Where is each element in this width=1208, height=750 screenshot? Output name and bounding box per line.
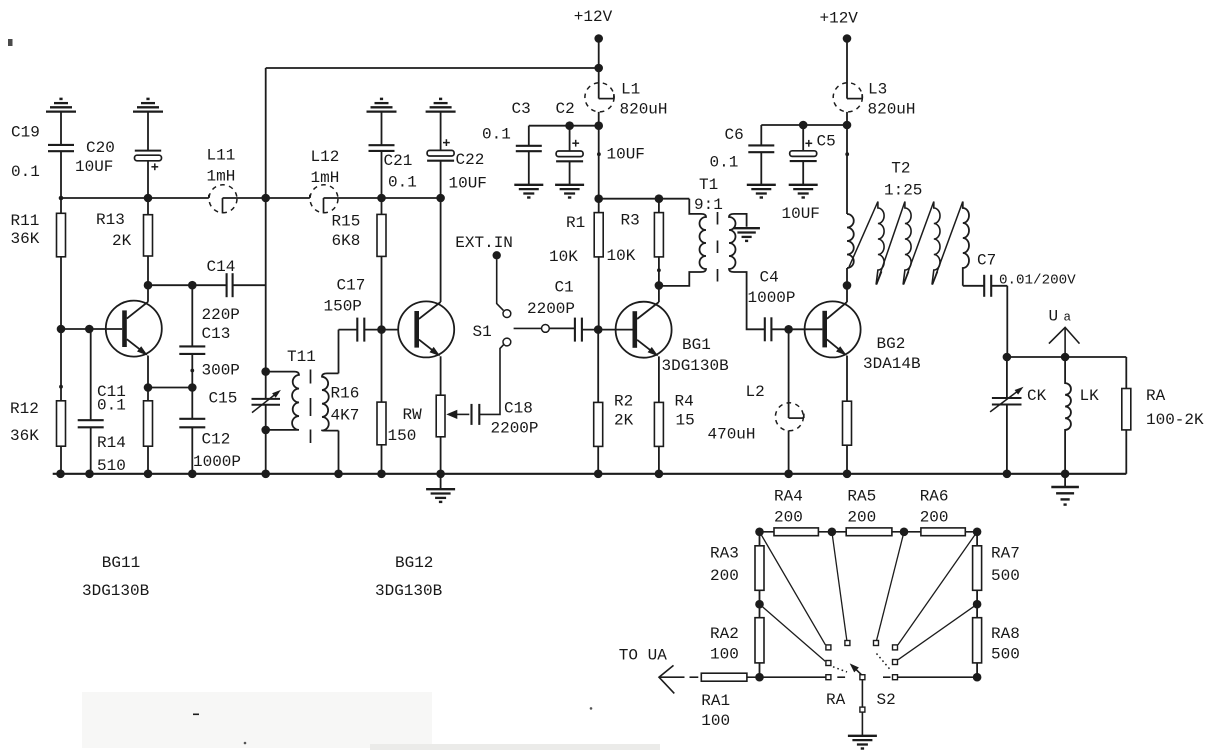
svg-text:C5: C5 bbox=[817, 133, 836, 151]
svg-text:510: 510 bbox=[97, 457, 126, 475]
svg-text:L12: L12 bbox=[311, 148, 340, 166]
svg-text:RA2: RA2 bbox=[710, 625, 739, 643]
svg-text:3DG130B: 3DG130B bbox=[82, 582, 149, 600]
svg-text:470uH: 470uH bbox=[708, 426, 756, 444]
svg-text:C7: C7 bbox=[977, 252, 996, 270]
svg-text:RA4: RA4 bbox=[774, 488, 803, 506]
svg-text:RA7: RA7 bbox=[991, 545, 1020, 563]
svg-text:36K: 36K bbox=[10, 427, 39, 445]
svg-text:220P: 220P bbox=[202, 306, 240, 324]
svg-text:U: U bbox=[1049, 308, 1059, 326]
svg-text:RW: RW bbox=[403, 406, 423, 424]
svg-text:200: 200 bbox=[710, 567, 739, 585]
svg-text:2200P: 2200P bbox=[527, 300, 575, 318]
svg-text:0.1: 0.1 bbox=[388, 174, 417, 192]
svg-text:C6: C6 bbox=[725, 126, 744, 144]
svg-text:a: a bbox=[1064, 311, 1072, 325]
svg-text:C1: C1 bbox=[555, 279, 574, 297]
svg-text:R15: R15 bbox=[332, 213, 361, 231]
svg-text:0.1: 0.1 bbox=[710, 154, 739, 172]
svg-text:R2: R2 bbox=[614, 393, 633, 411]
svg-text:500: 500 bbox=[991, 567, 1020, 585]
svg-text:L1: L1 bbox=[621, 81, 640, 99]
svg-text:R13: R13 bbox=[96, 211, 125, 229]
svg-text:820uH: 820uH bbox=[868, 101, 916, 119]
svg-text:C4: C4 bbox=[760, 269, 779, 287]
svg-text:C17: C17 bbox=[337, 277, 366, 295]
svg-text:0.01/200V: 0.01/200V bbox=[999, 273, 1076, 289]
svg-text:10UF: 10UF bbox=[75, 158, 113, 176]
svg-text:+12V: +12V bbox=[820, 10, 859, 28]
svg-text:150: 150 bbox=[388, 427, 417, 445]
svg-text:2200P: 2200P bbox=[491, 420, 539, 438]
svg-text:15: 15 bbox=[676, 412, 695, 430]
svg-text:6K8: 6K8 bbox=[332, 232, 361, 250]
svg-text:L3: L3 bbox=[868, 81, 887, 99]
svg-text:2K: 2K bbox=[112, 232, 132, 250]
svg-text:S2: S2 bbox=[877, 691, 896, 709]
svg-text:T11: T11 bbox=[287, 348, 316, 366]
svg-text:RA1: RA1 bbox=[701, 692, 730, 710]
svg-text:10UF: 10UF bbox=[449, 175, 487, 193]
svg-text:0.1: 0.1 bbox=[97, 397, 126, 415]
svg-text:36K: 36K bbox=[11, 230, 40, 248]
svg-text:150P: 150P bbox=[324, 298, 362, 316]
svg-text:C19: C19 bbox=[11, 124, 40, 142]
svg-text:C20: C20 bbox=[86, 139, 115, 157]
svg-text:RA: RA bbox=[826, 691, 846, 709]
svg-text:LK: LK bbox=[1080, 387, 1100, 405]
svg-text:S1: S1 bbox=[473, 323, 492, 341]
svg-text:C12: C12 bbox=[202, 431, 231, 449]
svg-text:200: 200 bbox=[847, 509, 876, 527]
svg-text:300P: 300P bbox=[202, 362, 240, 380]
svg-text:100: 100 bbox=[701, 712, 730, 730]
svg-text:EXT.IN: EXT.IN bbox=[455, 234, 513, 252]
svg-text:RA8: RA8 bbox=[991, 625, 1020, 643]
svg-text:R1: R1 bbox=[566, 214, 585, 232]
svg-text:T1: T1 bbox=[699, 176, 718, 194]
svg-text:L11: L11 bbox=[207, 147, 236, 165]
svg-text:0.1: 0.1 bbox=[482, 126, 511, 144]
svg-text:R11: R11 bbox=[11, 212, 40, 230]
svg-text:BG1: BG1 bbox=[682, 336, 711, 354]
svg-text:1000P: 1000P bbox=[193, 453, 241, 471]
svg-text:200: 200 bbox=[774, 509, 803, 527]
svg-text:3DG130B: 3DG130B bbox=[375, 582, 442, 600]
svg-text:C2: C2 bbox=[556, 100, 575, 118]
svg-text:1mH: 1mH bbox=[207, 168, 236, 186]
svg-text:RA3: RA3 bbox=[710, 545, 739, 563]
svg-text:BG12: BG12 bbox=[395, 554, 433, 572]
svg-text:4K7: 4K7 bbox=[331, 407, 360, 425]
svg-text:200: 200 bbox=[920, 509, 949, 527]
svg-text:10K: 10K bbox=[607, 247, 636, 265]
svg-text:C3: C3 bbox=[512, 100, 531, 118]
svg-text:RA6: RA6 bbox=[920, 488, 949, 506]
svg-text:10K: 10K bbox=[549, 248, 578, 266]
svg-text:3DG130B: 3DG130B bbox=[662, 357, 729, 375]
svg-text:+12V: +12V bbox=[574, 8, 613, 26]
svg-text:TO UA: TO UA bbox=[619, 647, 667, 665]
svg-text:9:1: 9:1 bbox=[694, 196, 723, 214]
svg-text:BG2: BG2 bbox=[877, 335, 906, 353]
svg-text:C22: C22 bbox=[456, 151, 485, 169]
svg-text:R14: R14 bbox=[97, 434, 126, 452]
svg-text:R16: R16 bbox=[331, 385, 360, 403]
svg-text:2K: 2K bbox=[614, 412, 634, 430]
svg-text:C14: C14 bbox=[207, 258, 236, 276]
svg-text:C15: C15 bbox=[209, 390, 238, 408]
svg-text:C21: C21 bbox=[384, 152, 413, 170]
svg-text:R4: R4 bbox=[675, 393, 694, 411]
svg-text:1000P: 1000P bbox=[748, 289, 796, 307]
svg-text:T2: T2 bbox=[891, 160, 910, 178]
svg-text:0.1: 0.1 bbox=[11, 163, 40, 181]
svg-text:RA5: RA5 bbox=[847, 488, 876, 506]
svg-text:500: 500 bbox=[991, 646, 1020, 664]
svg-text:R12: R12 bbox=[10, 400, 39, 418]
svg-text:1:25: 1:25 bbox=[884, 182, 922, 200]
svg-text:10UF: 10UF bbox=[607, 146, 645, 164]
svg-text:820uH: 820uH bbox=[620, 101, 668, 119]
svg-text:10UF: 10UF bbox=[782, 205, 820, 223]
svg-text:100-2K: 100-2K bbox=[1146, 411, 1204, 429]
svg-text:3DA14B: 3DA14B bbox=[863, 355, 921, 373]
svg-text:C18: C18 bbox=[504, 400, 533, 418]
svg-text:RA: RA bbox=[1146, 387, 1166, 405]
svg-text:100: 100 bbox=[710, 646, 739, 664]
svg-text:1mH: 1mH bbox=[311, 169, 340, 187]
svg-text:BG11: BG11 bbox=[102, 554, 140, 572]
svg-text:C13: C13 bbox=[202, 325, 231, 343]
svg-text:L2: L2 bbox=[746, 383, 765, 401]
svg-text:CK: CK bbox=[1027, 387, 1047, 405]
svg-text:R3: R3 bbox=[621, 212, 640, 230]
